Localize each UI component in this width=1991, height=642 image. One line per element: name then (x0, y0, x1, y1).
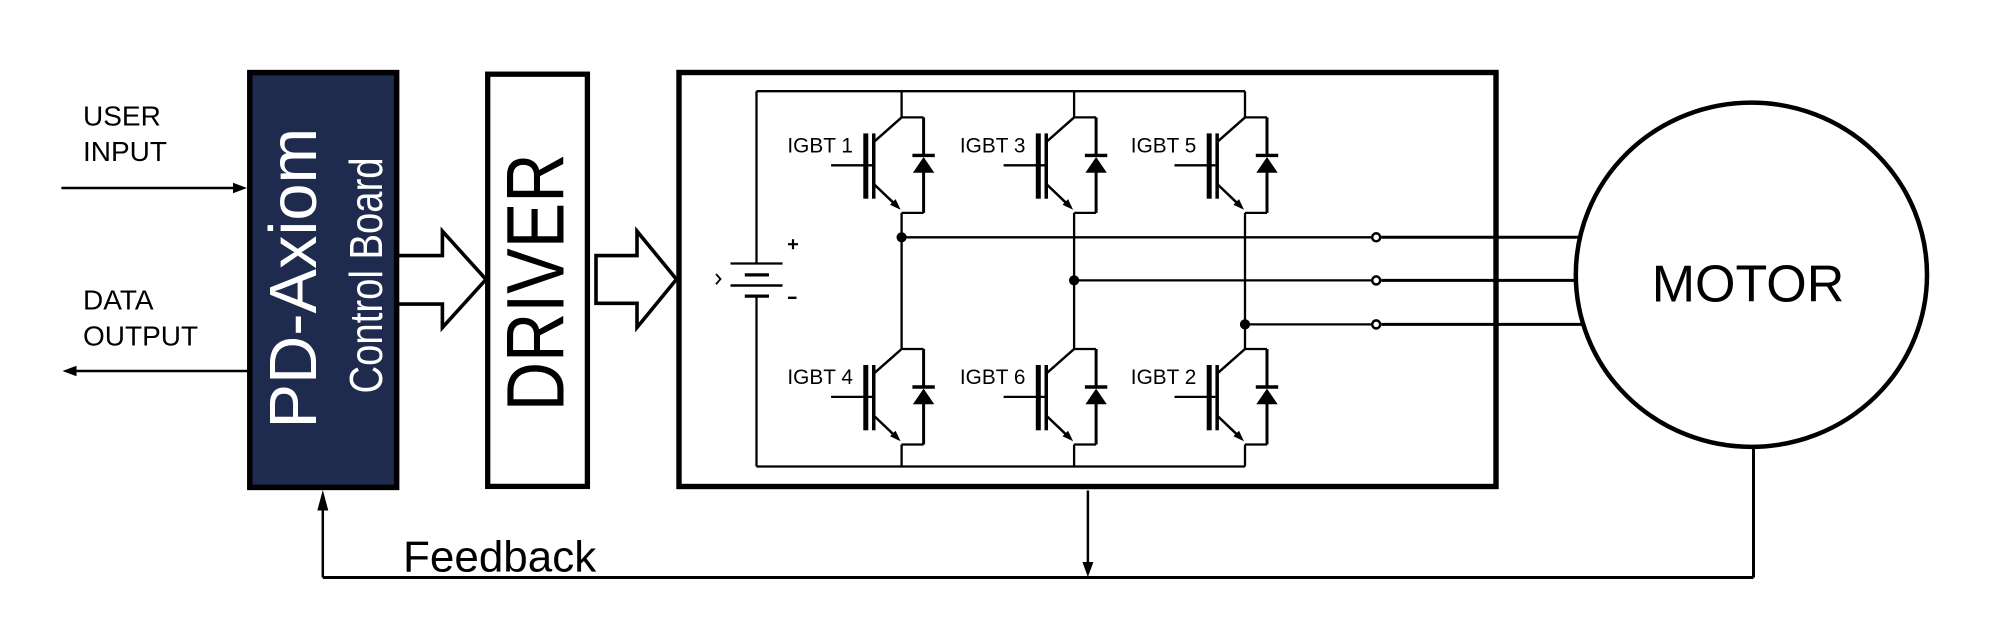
svg-text:OUTPUT: OUTPUT (83, 321, 198, 352)
transistor IGBT 5 IGBT body (1207, 117, 1245, 209)
node phase B junction (1069, 275, 1079, 285)
transistor IGBT 5 collector junction wire (1245, 116, 1267, 118)
transistor IGBT 4 gate lead (831, 396, 872, 398)
transistor IGBT 5 gate lead (1175, 164, 1216, 166)
wire battery bottom lead (755, 296, 757, 466)
svg-text:IGBT 1: IGBT 1 (787, 135, 853, 158)
svg-text:IGBT 4: IGBT 4 (787, 366, 853, 389)
transistor IGBT 2 emitter junction wire (1245, 443, 1267, 445)
svg-text:IGBT 6: IGBT 6 (960, 366, 1026, 389)
block arrow driver to inverter (596, 231, 677, 327)
transistor IGBT 4 diode D (912, 349, 934, 445)
node phase C junction (1240, 319, 1250, 329)
battery B1 (DC link) (731, 264, 783, 297)
transistor IGBT 2 gate lead (1175, 396, 1216, 398)
transistor IGBT 2 collector junction wire (1245, 348, 1267, 350)
inverter module box (679, 73, 1496, 487)
wire phase B to motor (1381, 279, 1600, 282)
transistor IGBT 3 gate lead (1004, 164, 1045, 166)
svg-text:Feedback: Feedback (403, 532, 597, 581)
label battery - (788, 297, 797, 299)
svg-text:DRIVER: DRIVER (490, 153, 581, 411)
svg-text:IGBT 2: IGBT 2 (1131, 366, 1197, 389)
wire phase leg 3 (1244, 91, 1246, 466)
wire phase C output (1245, 323, 1371, 325)
transistor IGBT 1 gate lead (831, 164, 872, 166)
transistor IGBT 6 IGBT body (1036, 349, 1074, 441)
transistor IGBT 1 diode D (912, 117, 934, 212)
svg-text:MOTOR: MOTOR (1652, 256, 1845, 314)
terminal phase A (1372, 233, 1380, 241)
transistor IGBT 3 IGBT body (1036, 117, 1074, 209)
wire DC+ top rail (757, 90, 1246, 92)
wire DC- bottom rail (757, 465, 1246, 467)
transistor IGBT 3 emitter junction wire (1074, 212, 1096, 214)
wire battery top lead (755, 91, 757, 263)
transistor IGBT 3 collector junction wire (1074, 116, 1096, 118)
transistor IGBT 6 emitter junction wire (1074, 443, 1096, 445)
transistor IGBT 1 collector junction wire (902, 116, 924, 118)
svg-text:Control Board: Control Board (341, 157, 393, 393)
wire inverter feedback arrow down (1082, 491, 1093, 578)
svg-text:PD-Axiom: PD-Axiom (257, 128, 331, 429)
svg-text:DATA: DATA (83, 285, 154, 316)
transistor IGBT 5 emitter junction wire (1245, 212, 1267, 214)
terminal phase C (1372, 320, 1380, 328)
wire phase leg 1 (900, 91, 902, 466)
wire phase B output (1074, 279, 1371, 281)
wire phase leg 2 (1073, 91, 1075, 466)
wire motor feedback lead (1752, 449, 1755, 578)
transistor IGBT 6 diode D (1085, 349, 1107, 445)
wire data output arrow (63, 366, 249, 376)
wire phase C to motor (1381, 323, 1600, 326)
transistor IGBT 5 diode D (1256, 117, 1278, 212)
svg-text:IGBT 3: IGBT 3 (960, 135, 1026, 158)
block arrow control board to driver (398, 231, 487, 327)
label battery + (788, 239, 798, 249)
transistor IGBT 6 collector junction wire (1074, 348, 1096, 350)
control board U1 (PD-Axiom) (250, 73, 397, 488)
transistor IGBT 4 emitter junction wire (902, 443, 924, 445)
wire phase A to motor (1381, 236, 1600, 239)
wire user input arrow (61, 183, 247, 193)
motor M1 (1576, 103, 1927, 447)
transistor IGBT 3 diode D (1085, 117, 1107, 212)
transistor IGBT 1 emitter junction wire (902, 212, 924, 214)
arrow tip artifact inside box (716, 274, 721, 284)
node phase A junction (897, 232, 907, 242)
wire feedback bus (323, 576, 1754, 579)
transistor IGBT 4 collector junction wire (902, 348, 924, 350)
wire feedback arrow up into control board (317, 490, 328, 578)
transistor IGBT 2 IGBT body (1207, 349, 1245, 441)
terminal phase B (1372, 276, 1380, 284)
transistor IGBT 4 IGBT body (863, 349, 901, 441)
svg-text:USER: USER (83, 101, 161, 132)
transistor IGBT 2 diode D (1256, 349, 1278, 445)
transistor IGBT 6 gate lead (1004, 396, 1045, 398)
svg-text:IGBT 5: IGBT 5 (1131, 135, 1197, 158)
transistor IGBT 1 IGBT body (863, 117, 901, 209)
driver U2 (488, 74, 588, 486)
svg-text:INPUT: INPUT (83, 136, 167, 167)
wire phase A output (902, 236, 1371, 238)
